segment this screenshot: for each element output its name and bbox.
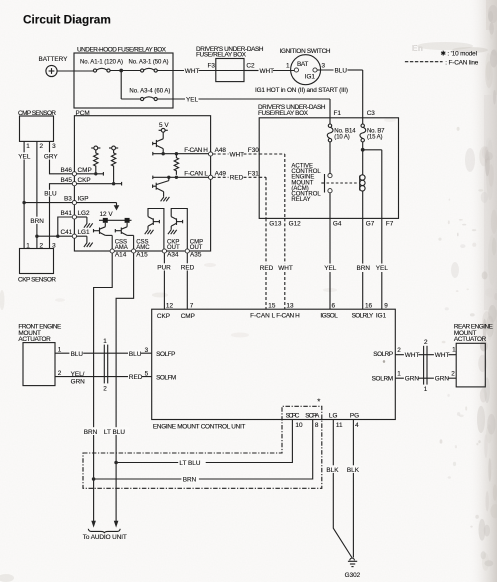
svg-text:IG1: IG1 <box>376 312 387 319</box>
svg-text:BLK: BLK <box>347 467 360 474</box>
transistor Q4 (CSS AMC) <box>115 223 133 249</box>
svg-text:G4: G4 <box>333 221 342 228</box>
svg-text:IG1: IG1 <box>305 73 316 80</box>
wire YEL G4 to pin 6 <box>329 218 331 263</box>
wire PUR (A34 to pin 12) <box>163 253 165 309</box>
wire F7 branch <box>363 149 382 151</box>
svg-text:1: 1 <box>424 386 428 393</box>
battery <box>39 56 69 77</box>
svg-text:(10 A): (10 A) <box>334 135 350 141</box>
fuse No. A3-4 (60 A) <box>129 89 170 101</box>
svg-text:BAT: BAT <box>297 61 308 68</box>
PCM pin C41 <box>72 234 76 238</box>
junction dot LT BLU <box>114 461 118 465</box>
svg-text:WHT: WHT <box>405 352 420 359</box>
ground (Q6) <box>168 230 177 234</box>
svg-text:AMA: AMA <box>115 245 128 251</box>
junction dot BRN <box>92 477 96 481</box>
wire SCPA pin8 to BRN <box>94 420 313 480</box>
svg-text:LG2: LG2 <box>78 210 91 217</box>
svg-text:F1: F1 <box>334 110 342 117</box>
transistor Q2 (F-CAN L driver) <box>153 177 169 197</box>
CKP internal line <box>77 183 122 185</box>
svg-text:RED: RED <box>230 175 244 182</box>
svg-text:SOLFP: SOLFP <box>156 351 175 358</box>
svg-text:(15 A): (15 A) <box>367 135 383 141</box>
svg-text:WHT: WHT <box>278 265 293 272</box>
svg-text:LT BLU: LT BLU <box>179 460 200 467</box>
svg-text:7: 7 <box>190 302 194 309</box>
svg-text:SCPA: SCPA <box>305 412 320 419</box>
wire G4 (contact to box bottom) <box>329 193 331 219</box>
PCM pin A35 <box>185 249 189 253</box>
transistor Q1 (F-CAN H driver) <box>153 132 164 154</box>
svg-text:3: 3 <box>145 347 149 354</box>
resistor R2 (CKP pull-up) <box>111 150 115 183</box>
svg-text:RED: RED <box>129 374 143 381</box>
PCM pin B45 <box>72 182 76 186</box>
svg-text:6: 6 <box>332 302 336 309</box>
svg-text:1: 1 <box>58 347 62 354</box>
PCM pin A14 <box>110 249 114 253</box>
wire GRN (SOLRM to rear actuator 2) <box>395 377 456 379</box>
PCM pin B46 <box>72 172 76 176</box>
PCM pin A34 <box>162 249 166 253</box>
wire fuse B14 to relay contact <box>329 142 331 174</box>
svg-text:PUR: PUR <box>157 264 171 271</box>
svg-text:F30: F30 <box>248 147 259 154</box>
svg-text:WHT: WHT <box>185 68 200 75</box>
ACM relay label <box>291 164 321 203</box>
wire GRY (CMP pin3 to B46) <box>50 141 73 173</box>
svg-text:BATTERY: BATTERY <box>39 56 69 63</box>
svg-text:8: 8 <box>315 422 319 429</box>
wire BRN (A14 to audio) <box>94 253 113 521</box>
svg-text:GRN: GRN <box>405 376 420 383</box>
wire fuse B7 to coil / F7 junction <box>362 142 364 175</box>
junction dot LG1 <box>35 235 38 238</box>
svg-text:F-CAN L: F-CAN L <box>250 312 275 319</box>
svg-text:Circuit Diagram: Circuit Diagram <box>23 13 111 27</box>
svg-text:G7: G7 <box>366 221 375 228</box>
wire YEL F7 to pin 9 <box>381 218 383 263</box>
wire BLK (PG pin4 to G302) <box>352 420 354 558</box>
ground (Q2 emitter) <box>161 197 170 201</box>
wire LT BLU (A15 to audio) <box>116 253 134 521</box>
wire BLU (B45 to CKP pin3) <box>50 184 73 249</box>
svg-text:F3: F3 <box>208 63 216 70</box>
svg-text:YEL: YEL <box>18 153 31 160</box>
dashed wire RED G13 to pin 15 <box>265 218 267 263</box>
svg-text:CKP: CKP <box>78 177 91 184</box>
F-CAN H internal line <box>152 152 154 156</box>
wire YEL (CMP pin1 / CKP pin1 / IGP) <box>23 141 25 248</box>
svg-text:2: 2 <box>451 371 455 378</box>
svg-text:OUT: OUT <box>190 245 203 251</box>
LG2 internal ground <box>77 217 93 228</box>
arrow to audio (BRN) <box>91 521 96 528</box>
svg-text:CKP: CKP <box>157 313 170 320</box>
svg-text:WHT: WHT <box>435 352 450 359</box>
in-line connector (front) <box>103 338 107 392</box>
svg-text:OUT: OUT <box>167 245 180 251</box>
svg-text:G302: G302 <box>345 572 361 579</box>
junction dot <box>119 69 123 73</box>
wire battery to under-hood box <box>57 70 93 72</box>
svg-text:F-CAN L: F-CAN L <box>184 171 208 178</box>
svg-text:F-CAN H: F-CAN H <box>276 312 300 319</box>
svg-text:SOLRM: SOLRM <box>372 375 394 382</box>
svg-text:C2: C2 <box>246 63 255 70</box>
in-line connector (rear) <box>424 339 428 393</box>
fuse No. B14 (10 A) <box>327 118 356 142</box>
svg-text:C3: C3 <box>367 110 376 117</box>
driver's under-dash fuse/relay box (main) <box>258 104 399 218</box>
svg-text:G13: G13 <box>269 221 282 228</box>
svg-text:*: * <box>317 398 320 407</box>
wire / junction to fuse A3-1 <box>110 70 140 72</box>
svg-text:3: 3 <box>322 63 326 70</box>
junction dot LG2/LG1 <box>56 235 59 238</box>
CMP OUT buffer rail <box>171 209 187 249</box>
legend '10 model <box>441 50 478 57</box>
svg-text:PG: PG <box>350 412 359 419</box>
front engine mount actuator <box>18 324 61 386</box>
wire BRN G7 to pin 16 <box>362 218 364 263</box>
svg-text:15: 15 <box>268 302 276 309</box>
svg-text:WHT: WHT <box>260 68 275 75</box>
LG1 internal ground <box>77 236 93 247</box>
CKP sensor <box>18 243 56 284</box>
CMP internal line <box>77 173 104 175</box>
svg-text:B41: B41 <box>61 210 73 217</box>
svg-text:AMC: AMC <box>136 245 150 251</box>
svg-text:No. A3-1 (50 A): No. A3-1 (50 A) <box>129 60 169 66</box>
svg-text:BRN: BRN <box>183 477 197 484</box>
svg-text:: F-CAN line: : F-CAN line <box>445 59 478 66</box>
svg-text:BRN: BRN <box>84 429 98 436</box>
svg-text:BLU: BLU <box>44 190 57 197</box>
wire WHT from C2 to ignition switch <box>244 70 259 72</box>
legend F-CAN line <box>405 59 479 66</box>
wire LG1 (C41 to BRN wire) <box>37 235 72 237</box>
wire RED (A35 to pin 7) <box>186 253 188 309</box>
svg-text:BLU: BLU <box>129 351 142 358</box>
resistor R term (CAN) <box>174 154 178 175</box>
svg-text:RELAY: RELAY <box>291 197 310 203</box>
svg-text:5 V: 5 V <box>159 122 169 129</box>
wire YEL/GRN - RED (actuator 2 to SOLFM) <box>55 376 152 378</box>
svg-text:YEL/: YEL/ <box>71 371 85 378</box>
arrow to audio (LT BLU) <box>114 521 119 528</box>
svg-text:RED: RED <box>260 265 274 272</box>
svg-text:B45: B45 <box>61 177 73 184</box>
resistor R1 (CMP pull-up) <box>94 150 98 173</box>
svg-text:SCPC: SCPC <box>286 412 300 419</box>
svg-text:12 V: 12 V <box>100 211 114 218</box>
svg-text:B46: B46 <box>61 167 73 174</box>
svg-text:IGP: IGP <box>78 196 89 203</box>
svg-text:13: 13 <box>286 302 294 309</box>
svg-text:✱ : '10 model: ✱ : '10 model <box>441 50 478 57</box>
PCM pin A48 <box>209 152 213 156</box>
wire LG2 (B41) <box>58 217 73 236</box>
svg-text:11: 11 <box>336 422 343 429</box>
svg-text:BLU: BLU <box>71 351 84 358</box>
branch wire to fuse A3-4 <box>120 71 122 100</box>
svg-text:A48: A48 <box>215 147 227 154</box>
svg-text:2: 2 <box>397 347 401 354</box>
transistor Q6 (CMP OUT) <box>171 217 182 230</box>
svg-text:A49: A49 <box>215 171 227 178</box>
svg-text:F31: F31 <box>248 171 259 178</box>
wire WHT from fuse A3-1 to F3 <box>157 70 184 72</box>
svg-text:9: 9 <box>384 302 388 309</box>
svg-text:1: 1 <box>397 371 401 378</box>
engine mount control unit <box>152 309 396 430</box>
svg-text:B3: B3 <box>64 196 72 203</box>
svg-text:1: 1 <box>452 347 456 354</box>
svg-text:CMP: CMP <box>78 167 92 174</box>
svg-text:IG1 HOT in ON (II) and START (: IG1 HOT in ON (II) and START (III) <box>255 87 348 94</box>
svg-text:IGNITION SWITCH: IGNITION SWITCH <box>280 48 331 55</box>
svg-text:GRY: GRY <box>44 153 58 160</box>
PCM pin B41 <box>72 215 76 219</box>
under-hood fuse/relay box <box>74 47 173 109</box>
svg-text:No. A3-4 (60 A): No. A3-4 (60 A) <box>129 89 170 95</box>
svg-text:YEL: YEL <box>376 265 389 272</box>
ACM relay coil <box>360 175 365 219</box>
audio unit brace <box>88 529 120 533</box>
svg-text:A15: A15 <box>136 252 148 259</box>
svg-text:ACTUATOR: ACTUATOR <box>454 336 487 343</box>
svg-text:1: 1 <box>286 63 290 70</box>
svg-text:A35: A35 <box>190 252 202 259</box>
12V rail <box>99 211 132 223</box>
svg-text:IGSOL: IGSOL <box>320 312 338 319</box>
ground G302 <box>345 558 361 579</box>
svg-text:LT BLU: LT BLU <box>104 429 125 436</box>
IGP internal line w/ arrow <box>77 203 120 211</box>
wire BLU ignition to C3 <box>317 69 333 71</box>
svg-text:GRN: GRN <box>71 378 86 385</box>
wire BLU (actuator 1 to SOLFP) <box>55 352 152 354</box>
CKP OUT buffer rail <box>148 209 164 249</box>
dashed wire WHT G12 to pin 13 <box>284 218 286 263</box>
svg-text:YEL: YEL <box>324 265 337 272</box>
svg-text:GRN: GRN <box>435 376 450 383</box>
F-CAN L internal line <box>152 176 154 180</box>
svg-text:2: 2 <box>424 339 428 346</box>
PCM pin A15 <box>132 249 136 253</box>
svg-text:1: 1 <box>26 143 30 150</box>
svg-text:LG1: LG1 <box>78 229 91 236</box>
wire WHT (SOLRP to rear actuator 1) <box>395 354 456 356</box>
ignition switch <box>280 48 331 85</box>
svg-text:BLU: BLU <box>335 68 348 75</box>
svg-text:12: 12 <box>166 302 174 309</box>
dashed wire WHT F-CAN H : A48 to F30 <box>213 153 229 155</box>
svg-text:3: 3 <box>52 143 56 150</box>
svg-text:2: 2 <box>103 386 107 393</box>
svg-text:1: 1 <box>103 338 107 345</box>
svg-text:ENGINE MOUNT CONTROL UNIT: ENGINE MOUNT CONTROL UNIT <box>153 424 246 431</box>
relay dashed actuation line <box>327 182 358 184</box>
svg-text:G12: G12 <box>289 221 302 228</box>
svg-text:SOLRP: SOLRP <box>373 351 393 358</box>
svg-text:No. A1-1 (120 A): No. A1-1 (120 A) <box>80 60 123 66</box>
transistor Q5 (CKP OUT) <box>148 217 159 230</box>
wire IGP (B3 to YEL wire) <box>24 202 72 204</box>
svg-text:A34: A34 <box>167 252 179 259</box>
svg-text:FUSE/RELAY BOX: FUSE/RELAY BOX <box>196 52 247 59</box>
5V supply node <box>159 122 170 132</box>
junction dot IGP <box>22 201 25 204</box>
wire BLK (LG pin11 to G302) <box>333 420 352 558</box>
CMP sensor <box>18 110 56 150</box>
fuse No. A3-1 (50 A) <box>129 60 169 73</box>
svg-text:A14: A14 <box>115 252 127 259</box>
svg-text:LG: LG <box>329 412 338 419</box>
5V pull-up node 2 <box>109 146 118 150</box>
ground (Q5) <box>145 230 154 234</box>
svg-text:To AUDIO UNIT: To AUDIO UNIT <box>83 534 127 541</box>
svg-text:C41: C41 <box>61 229 73 236</box>
5V pull-up node 1 <box>91 146 100 150</box>
wire BRN (CMP pin2 / CKP pin2 / LG) <box>36 141 38 248</box>
svg-text:FUSE/RELAY BOX: FUSE/RELAY BOX <box>258 110 309 117</box>
fuse No. A1-1 (120 A) <box>80 60 123 73</box>
PCM box <box>74 110 210 251</box>
svg-text:BLK: BLK <box>326 467 339 474</box>
svg-text:BRN: BRN <box>30 218 44 225</box>
driver's under-dash fuse/relay box (upper pass-through) <box>196 46 264 82</box>
'10 model marker outline <box>83 398 322 489</box>
svg-text:BRN: BRN <box>357 265 371 272</box>
svg-text:WHT: WHT <box>230 151 245 158</box>
fuse No. B7 (15 A) <box>360 118 385 142</box>
svg-text:2: 2 <box>58 370 62 377</box>
svg-text:10: 10 <box>295 422 303 429</box>
ACM relay contact <box>321 174 332 193</box>
svg-text:16: 16 <box>365 302 373 309</box>
svg-text:SOLFM: SOLFM <box>156 375 176 382</box>
svg-text:4: 4 <box>355 422 359 429</box>
svg-text:5: 5 <box>145 370 149 377</box>
svg-text:CMP: CMP <box>181 313 195 320</box>
svg-text:YEL: YEL <box>186 97 199 104</box>
wire SCPC pin10 to LT BLU <box>116 420 292 463</box>
svg-text:CKP SENSOR: CKP SENSOR <box>18 277 56 284</box>
svg-text:RED: RED <box>181 264 195 271</box>
svg-text:SOLRLY: SOLRLY <box>352 312 374 319</box>
rear engine mount actuator <box>454 324 493 387</box>
PCM pin B3 <box>72 201 76 205</box>
transistor Q3 (CSS AMA) <box>94 223 113 249</box>
wire YEL from fuse A3-4 to F1 <box>157 98 185 100</box>
PCM pin A49 <box>209 175 213 179</box>
dashed wire RED F-CAN L : A49 to F31 <box>213 176 229 178</box>
svg-text:2: 2 <box>40 143 44 150</box>
svg-text:F7: F7 <box>386 221 394 228</box>
